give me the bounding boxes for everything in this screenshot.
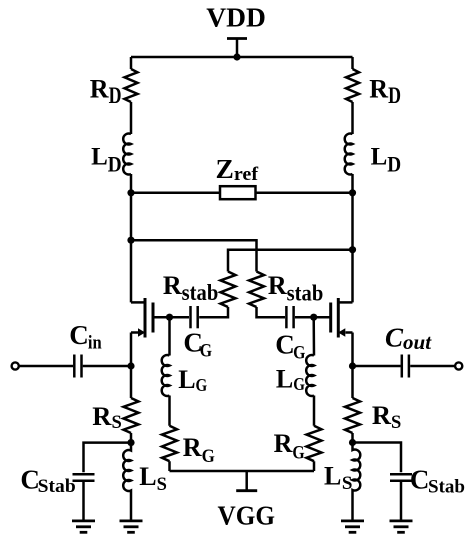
- resistor Rstab right: [249, 272, 264, 308]
- wire RS to node: [130, 433, 133, 443]
- wire VGG rail: [170, 470, 315, 473]
- wire Zref net: [131, 192, 353, 195]
- capacitor CG left: [191, 306, 198, 328]
- wire right gate column: [312, 317, 315, 471]
- ground LS right: [341, 521, 364, 532]
- terminal input port: [12, 362, 19, 369]
- svg-text:VGG: VGG: [218, 500, 276, 531]
- wire right source rail: [351, 333, 354, 399]
- inductor LS left: [123, 443, 131, 520]
- resistor Zref (box): [220, 186, 256, 199]
- resistor RD left: [125, 69, 138, 102]
- svg-text:Cout: Cout: [385, 322, 432, 354]
- node right source / Cout: [349, 362, 356, 369]
- wire CStab right to ground: [400, 482, 403, 520]
- svg-text:LS: LS: [324, 462, 353, 494]
- node left drain / Zref: [127, 189, 134, 196]
- ground LS left: [120, 521, 143, 532]
- wire Rstab right to gate net: [257, 307, 286, 317]
- svg-text:LG: LG: [178, 365, 207, 395]
- node right drain / Zref: [349, 189, 356, 196]
- node left gate: [166, 314, 173, 321]
- wire CStab left to ground: [82, 482, 85, 520]
- wire CG right to gate: [295, 316, 331, 319]
- wire top rail VDD: [131, 56, 353, 59]
- node right gate: [310, 314, 317, 321]
- svg-text:CG: CG: [275, 330, 305, 364]
- inductor LG left: [162, 355, 170, 396]
- transistor M2 right: [331, 298, 353, 338]
- wire cross-couple A (left drain to right Rstab): [131, 240, 257, 271]
- wire left gate column: [168, 317, 171, 471]
- inductor LD left: [123, 134, 131, 175]
- ground CStab left: [72, 521, 95, 532]
- svg-text:RG: RG: [274, 429, 305, 463]
- node A: [127, 237, 134, 244]
- capacitor CStab left: [73, 474, 95, 480]
- wire Rstab left to gate net: [199, 307, 228, 317]
- svg-text:LD: LD: [371, 143, 402, 176]
- capacitor CG right: [286, 306, 293, 328]
- node right source degeneration: [349, 439, 356, 446]
- svg-text:RS: RS: [372, 400, 401, 433]
- wire to CStab left: [84, 443, 132, 473]
- wire cross-couple B (right drain to left Rstab): [228, 250, 353, 272]
- resistor RG right: [307, 426, 322, 462]
- svg-text:RD: RD: [90, 74, 122, 108]
- capacitor Cin: [74, 355, 81, 378]
- svg-text:LS: LS: [139, 462, 167, 495]
- wire Cout: [353, 365, 401, 368]
- svg-text:RG: RG: [183, 433, 215, 467]
- svg-text:RS: RS: [92, 401, 121, 433]
- wire Cin to source: [83, 365, 131, 368]
- node VDD junction: [233, 53, 240, 60]
- wire input: [19, 365, 73, 368]
- transistor M1 left: [131, 298, 153, 338]
- wire to CStab right: [353, 443, 402, 473]
- svg-text:Rstab: Rstab: [268, 271, 323, 305]
- capacitor CStab right: [390, 474, 412, 480]
- svg-text:Rstab: Rstab: [163, 271, 218, 305]
- svg-text:RD: RD: [369, 75, 401, 109]
- inductor LS right (bulge right): [353, 443, 361, 520]
- svg-text:CStab: CStab: [410, 464, 465, 497]
- node left source / Cin: [127, 362, 134, 369]
- wire CG left to gate: [153, 316, 189, 319]
- wire left source rail: [130, 333, 133, 399]
- wire left rail: [130, 57, 133, 302]
- VGG supply symbol: [236, 471, 257, 491]
- VDD supply symbol: [227, 39, 247, 58]
- svg-text:Zref: Zref: [216, 153, 259, 185]
- node B: [349, 246, 356, 253]
- svg-text:Cin: Cin: [69, 320, 102, 353]
- wire Cout to output: [410, 365, 455, 368]
- resistor RS right: [345, 398, 360, 433]
- svg-text:CG: CG: [183, 328, 212, 362]
- node left source degeneration: [127, 439, 134, 446]
- inductor LD right: [345, 134, 353, 175]
- svg-text:CStab: CStab: [20, 465, 75, 498]
- resistor RS left: [124, 398, 139, 433]
- terminal output port: [455, 362, 462, 369]
- wire right rail: [351, 57, 354, 302]
- wire RS right to node: [351, 433, 354, 443]
- svg-text:LD: LD: [91, 143, 122, 176]
- resistor Rstab left: [221, 272, 236, 308]
- capacitor Cout: [402, 355, 409, 378]
- svg-text:VDD: VDD: [206, 1, 266, 32]
- inductor LG right: [306, 355, 314, 396]
- resistor RG left: [162, 426, 177, 462]
- svg-text:LG: LG: [276, 364, 305, 394]
- ground CStab right: [390, 521, 413, 532]
- resistor RD right: [346, 69, 359, 102]
